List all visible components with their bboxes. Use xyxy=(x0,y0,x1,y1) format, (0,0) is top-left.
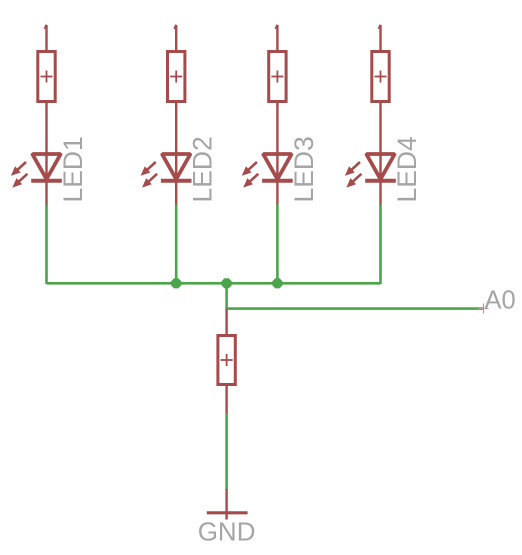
wire R5 to GND xyxy=(225,413,228,490)
junction xyxy=(272,278,282,288)
resistor R3 xyxy=(269,25,286,102)
wire R1 to LED1 xyxy=(45,103,47,206)
LED LED3 xyxy=(242,154,293,188)
svg-text:LED2: LED2 xyxy=(188,136,218,202)
wire bus to R5 xyxy=(225,283,228,310)
svg-text:LED3: LED3 xyxy=(289,136,319,202)
wire LED1 to bus xyxy=(45,205,48,285)
svg-text:GND: GND xyxy=(198,517,256,547)
svg-text:LED1: LED1 xyxy=(58,136,88,202)
wire R2 to LED2 xyxy=(175,103,177,206)
wire LED3 to bus xyxy=(276,205,279,285)
junction xyxy=(222,278,232,288)
resistor R4 xyxy=(372,25,389,102)
svg-text:A0: A0 xyxy=(485,287,516,315)
wire R3 to LED3 xyxy=(276,103,278,206)
ground GND xyxy=(207,489,248,520)
resistor R5 xyxy=(218,309,235,385)
wire LED2 to bus xyxy=(175,205,178,285)
wire bus xyxy=(47,282,381,285)
junction xyxy=(171,278,181,288)
wire net A0 xyxy=(227,307,483,310)
svg-text:LED4: LED4 xyxy=(392,136,422,202)
wire R5 lower pin xyxy=(225,386,227,414)
resistor R2 xyxy=(168,25,185,102)
LED LED4 xyxy=(345,154,396,188)
LED LED1 xyxy=(11,154,62,188)
resistor R1 xyxy=(38,25,55,102)
LED LED2 xyxy=(141,154,192,188)
wire R4 to LED4 xyxy=(379,103,381,206)
node A0 xyxy=(479,287,516,315)
wire LED4 to bus xyxy=(379,205,382,285)
